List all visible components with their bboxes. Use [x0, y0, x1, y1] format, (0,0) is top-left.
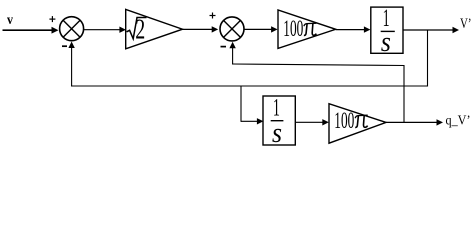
wire into bottom integrator — [241, 118, 263, 124]
minus sign at S1 lower input — [62, 45, 67, 47]
wire S1 output to sqrt2 gain — [84, 27, 126, 33]
minus sign at S2 lower input — [221, 46, 227, 48]
feedback wire up into S2 minus input — [229, 42, 235, 65]
gain block 100pi top — [278, 10, 336, 48]
feedback wire from V' node down — [427, 30, 429, 87]
wire sqrt2 to summer S2 — [183, 26, 219, 32]
feedback wire up into S1 minus input — [68, 42, 74, 87]
feedback wire horizontal q_V' to S2 — [232, 64, 405, 66]
integrator block 1/s top — [371, 5, 403, 58]
gain block 100pi bottom — [329, 104, 386, 144]
plus sign at S2 input — [210, 13, 216, 19]
wire input v into summer S1 — [3, 27, 59, 34]
svg-text:V’: V’ — [460, 16, 472, 32]
summing junction S2 — [220, 17, 244, 41]
feedback wire from q_V' line up — [403, 65, 405, 122]
svg-text:v: v — [7, 13, 13, 28]
summing junction S1 — [60, 17, 84, 41]
gain block sqrt(2) — [126, 9, 183, 48]
svg-text:100: 100 — [283, 16, 303, 41]
svg-text:2: 2 — [135, 14, 145, 45]
plus sign at S1 input — [49, 16, 55, 22]
wire bottom 100pi to q_V' output — [386, 119, 443, 125]
wire bottom integrator to 100pi — [295, 119, 329, 125]
integrator block 1/s bottom — [263, 94, 295, 149]
feedback wire horizontal V' to S1 — [71, 85, 428, 87]
svg-text:q_V’: q_V’ — [446, 114, 471, 129]
wire integrator to output V' — [403, 27, 459, 33]
wire 100pi to integrator — [336, 26, 371, 32]
svg-text:s: s — [381, 27, 391, 58]
tap wire down to bottom branch — [240, 86, 242, 122]
wire S2 output to 100pi gain — [244, 26, 277, 32]
svg-text:s: s — [272, 118, 282, 149]
svg-text:100: 100 — [334, 108, 354, 133]
